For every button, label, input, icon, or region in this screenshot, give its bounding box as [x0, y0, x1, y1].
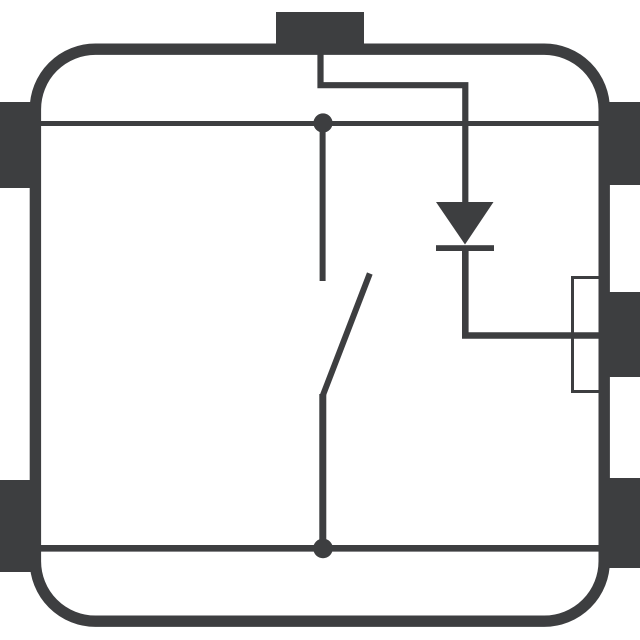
wire (top horizontal rail) — [39, 121, 601, 126]
pin pad right lower (pin 3) — [606, 478, 640, 568]
wire (switch lower contact to node B) — [319, 394, 326, 548]
pin pad right middle (pin 6) — [606, 292, 640, 377]
wire (from diode cathode down, jog right to terminal) — [465, 248, 601, 336]
pin pad left lower (pin 2) — [0, 480, 34, 572]
wire (switch upper contact from node A) — [320, 126, 326, 281]
diode D1 (anode triangle) — [436, 202, 494, 245]
wire (from top pin down, jog right, down to diode anode) — [321, 52, 466, 206]
switch S1 (blade) — [323, 274, 370, 396]
component body U1 (rounded package outline) — [35, 49, 604, 621]
pin pad left upper (pin 1) — [0, 102, 34, 188]
pin pad right upper (pin 5) — [606, 102, 640, 185]
node A (junction dot on top rail) — [313, 113, 332, 132]
wire (bottom horizontal rail) — [39, 545, 601, 552]
diode D1 (cathode bar) — [436, 245, 494, 251]
node B (junction dot on bottom rail) — [313, 539, 333, 559]
terminal T1 (open rectangle on right edge) — [573, 278, 602, 392]
pin pad top (pin 4) — [276, 12, 364, 52]
